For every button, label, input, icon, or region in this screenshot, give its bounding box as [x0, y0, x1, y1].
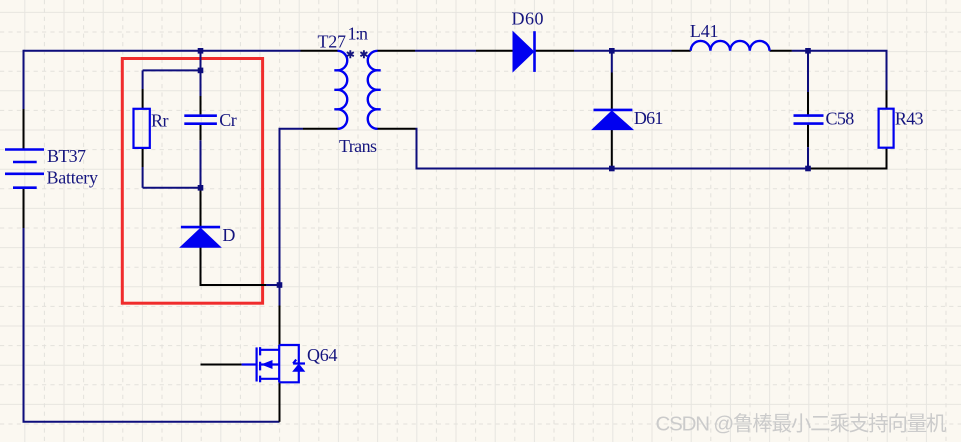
svg-text:Battery: Battery — [47, 168, 99, 188]
resistor Rr — [134, 109, 150, 148]
wire Rr top lead — [142, 70, 144, 89]
wire secondary bottom lead to output rail — [416, 129, 809, 169]
wire top rail navy left — [24, 50, 301, 52]
wire C58 bottom pin — [807, 125, 809, 148]
wire D60 anode pin — [476, 50, 513, 52]
capacitor Cr — [184, 116, 217, 124]
wire transformer primary top pin — [301, 50, 338, 52]
resistor R43 — [879, 109, 894, 148]
junction top rail at D61 — [609, 48, 615, 54]
zener bar — [293, 360, 305, 364]
right vertical — [278, 345, 280, 382]
capacitor C58 — [794, 116, 824, 124]
junction top rail at snubber — [198, 48, 204, 54]
wire left rail battery top — [23, 50, 25, 109]
wire diode D cathode pin — [200, 188, 202, 226]
wire C58 bottom lead — [807, 147, 809, 168]
wire top rail navy mid — [415, 50, 476, 52]
svg-text:T27: T27 — [318, 32, 347, 52]
junction snubber top — [198, 68, 204, 74]
wire snubber bottom rail — [143, 187, 201, 189]
wire L41 left pin — [672, 50, 691, 52]
wire transformer primary bottom pin — [303, 128, 338, 130]
wire Cr top pin — [200, 96, 202, 114]
junction drain node — [277, 282, 283, 288]
source stub — [260, 378, 279, 380]
drain stub — [260, 349, 279, 351]
body diode triangle — [293, 364, 304, 371]
wire left rail to bottom — [24, 228, 280, 422]
junction snubber bottom — [198, 185, 204, 191]
transistor Q64 (NMOS with body diode) — [242, 345, 305, 382]
wire D61 cathode pin — [611, 73, 613, 109]
svg-text:R43: R43 — [895, 109, 924, 129]
wire Cr bottom lead — [200, 140, 202, 188]
wire Cr top lead — [200, 70, 202, 96]
wire top rail navy right of D60 — [574, 50, 672, 52]
svg-text:D60: D60 — [512, 9, 544, 29]
wire transformer secondary bottom pin — [378, 128, 416, 130]
svg-text:Trans: Trans — [339, 136, 377, 156]
gate bar — [256, 347, 258, 381]
inductor L41 — [691, 41, 770, 51]
wire Q64 drain pin — [279, 306, 281, 346]
wire R43 top pin — [886, 90, 888, 109]
junction output rail at D61 — [609, 166, 615, 172]
wire Q64 gate stub — [201, 364, 242, 366]
diode D61 — [592, 110, 633, 130]
junction top rail at C58 — [805, 48, 811, 54]
wire D anode to drain node — [266, 284, 280, 286]
wire transformer secondary top pin — [378, 50, 416, 52]
wire Rr bottom pin — [142, 148, 144, 167]
wire D61 cathode lead — [611, 51, 613, 73]
wire C58 top pin — [807, 92, 809, 115]
wire primary bottom lead — [280, 129, 304, 306]
svg-text:BT37: BT37 — [47, 146, 86, 166]
wire D60 cathode pin — [536, 50, 575, 52]
wire junction drop to snubber — [200, 51, 202, 71]
transformer T27 — [334, 51, 380, 129]
wire Q64 source pin — [279, 382, 281, 422]
red selection box — [122, 59, 262, 304]
wire Rr top pin — [142, 89, 144, 109]
bulk arrow — [263, 361, 273, 369]
polarity dots — [347, 50, 368, 58]
wire R43 bottom pin — [808, 148, 887, 169]
wire battery negative pin — [23, 188, 25, 228]
diode D — [180, 227, 220, 247]
wire top rail navy to R43 corner — [792, 51, 887, 90]
svg-text:D: D — [222, 225, 235, 245]
channel bar segments — [259, 347, 261, 382]
wire battery positive pin — [23, 109, 25, 150]
wire D61 anode pin — [611, 130, 613, 169]
bulk stub — [260, 363, 279, 365]
svg-text:Q64: Q64 — [307, 345, 338, 365]
svg-text:1:n: 1:n — [348, 24, 369, 44]
svg-text:D61: D61 — [634, 108, 664, 128]
diode D60 — [513, 31, 535, 72]
wire diode D anode pin — [201, 247, 267, 285]
wire L41 right pin — [770, 50, 792, 52]
battery BT37 — [5, 150, 44, 188]
wire snubber top rail — [143, 69, 201, 71]
wire Rr bottom lead — [142, 167, 144, 188]
wire Cr bottom pin — [200, 125, 202, 140]
svg-text:L41: L41 — [690, 21, 719, 41]
gate lead — [242, 363, 256, 365]
svg-text:CSDN @鲁棒最小二乘支持向量机: CSDN @鲁棒最小二乘支持向量机 — [656, 413, 948, 436]
svg-text:Cr: Cr — [219, 110, 237, 130]
body diode loop — [279, 345, 299, 382]
svg-text:Rr: Rr — [151, 111, 169, 131]
wire C58 top lead — [807, 51, 809, 92]
svg-text:C58: C58 — [826, 108, 855, 128]
junction output rail at C58 — [805, 166, 811, 172]
